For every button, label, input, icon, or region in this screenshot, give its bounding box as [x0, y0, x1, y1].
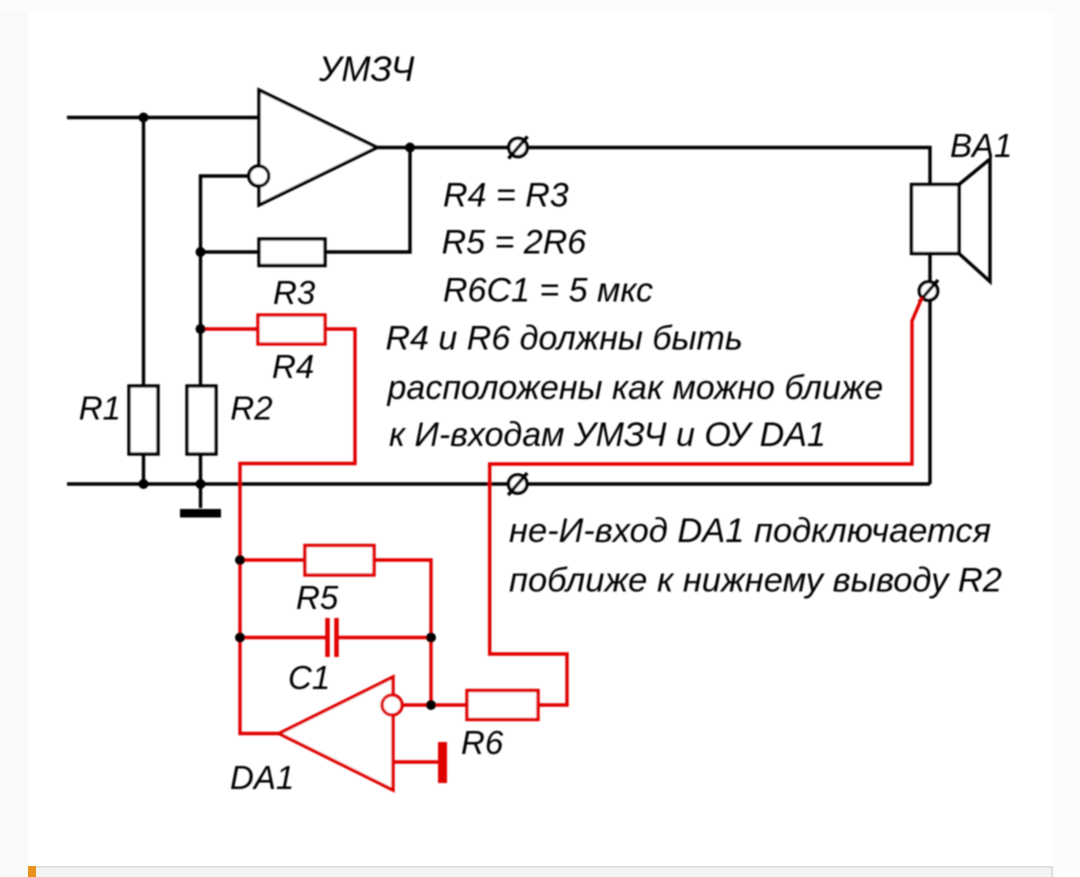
- wire R1 bottom: [142, 454, 145, 484]
- terminal bar DA1 non-inverting: [438, 742, 447, 783]
- resistor R1: [129, 386, 158, 454]
- node input junction: [139, 113, 149, 123]
- node R5 left junction: [235, 555, 245, 565]
- wire ground stub: [199, 484, 202, 508]
- ground: [180, 509, 221, 518]
- svg-text:BA1: BA1: [950, 127, 1012, 164]
- wire DA1 inverting input: [402, 703, 467, 706]
- svg-text:R4 и R6 должны быть: R4 и R6 должны быть: [386, 320, 743, 358]
- resistor R3: [259, 239, 325, 266]
- wire R5 right: [374, 560, 431, 705]
- terminal Ø rail: [508, 473, 527, 495]
- wire R3 right to output: [325, 148, 410, 253]
- resistor R2: [187, 386, 216, 454]
- node C1 right junction: [426, 633, 436, 643]
- op-amp УМЗЧ: [249, 90, 377, 205]
- wire ground rail: [67, 482, 930, 485]
- wire R5 left: [240, 558, 305, 561]
- svg-text:R4 = R3: R4 = R3: [443, 177, 569, 215]
- terminal Ø output: [509, 137, 528, 159]
- bottom bar: [29, 867, 1053, 877]
- svg-text:R5 = 2R6: R5 = 2R6: [442, 224, 587, 262]
- bottom bar orange marker: [28, 866, 36, 877]
- op-amp DA1: [279, 677, 402, 790]
- svg-text:R5: R5: [296, 579, 339, 616]
- wire R6 right feedback to speaker: [490, 298, 922, 706]
- node R2 rail junction: [196, 479, 206, 489]
- wire speaker to rail: [928, 300, 931, 484]
- wire R3 left: [201, 250, 260, 253]
- svg-text:УМЗЧ: УМЗЧ: [318, 50, 415, 89]
- wire R4 right down to DA1: [240, 329, 355, 734]
- svg-text:DA1: DA1: [230, 759, 294, 796]
- wire output: [377, 148, 930, 185]
- svg-text:R1: R1: [79, 390, 121, 427]
- wire R1 top: [142, 118, 145, 387]
- wire R2 bottom: [199, 454, 202, 484]
- wire input: [67, 116, 259, 119]
- node C1 left junction: [235, 633, 245, 643]
- capacitor C1: [328, 618, 337, 657]
- resistor R6: [467, 691, 538, 720]
- node output junction: [405, 143, 415, 153]
- svg-text:не-И-вход DA1 подключается: не-И-вход DA1 подключается: [509, 512, 991, 550]
- svg-text:к И-входам УМЗЧ и ОУ DA1: к И-входам УМЗЧ и ОУ DA1: [389, 416, 826, 454]
- svg-text:поближе к нижнему выводу R2: поближе к нижнему выводу R2: [509, 562, 1002, 600]
- svg-text:R4: R4: [272, 348, 314, 385]
- svg-text:R2: R2: [230, 390, 272, 427]
- wire inverting input УМЗЧ: [201, 176, 250, 386]
- wire speaker bottom: [928, 254, 931, 283]
- svg-text:расположены как можно ближе: расположены как можно ближе: [387, 369, 884, 407]
- svg-text:R3: R3: [273, 274, 316, 311]
- node R4 left junction: [196, 324, 206, 334]
- wire C1 right: [339, 636, 432, 639]
- node R6 left junction: [426, 700, 436, 710]
- resistor R4: [258, 315, 325, 344]
- resistor R5: [305, 546, 374, 576]
- node R3 left junction: [196, 247, 206, 257]
- speaker BA1: [912, 159, 991, 282]
- wire R4 left: [201, 327, 259, 330]
- wire DA1 non-inverting input: [393, 760, 438, 763]
- node R1 rail junction: [139, 479, 149, 489]
- wire C1 left: [240, 636, 326, 639]
- svg-text:C1: C1: [288, 659, 330, 696]
- svg-text:R6C1 = 5 мкс: R6C1 = 5 мкс: [443, 272, 653, 310]
- svg-text:R6: R6: [461, 724, 504, 761]
- terminal Ø speaker: [919, 280, 938, 302]
